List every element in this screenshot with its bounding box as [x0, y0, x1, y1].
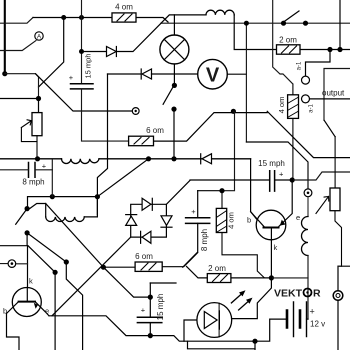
svg-text:+: +	[279, 170, 284, 179]
inductor L2	[46, 217, 85, 222]
lamp HL1	[160, 15, 189, 86]
svg-text:a-1: a-1	[297, 61, 303, 70]
node: dot (81.5,51.5)	[79, 49, 84, 54]
svg-text:+: +	[141, 306, 146, 315]
capacitor C1 "15 mph" polarized	[71, 84, 94, 89]
battery GB1 "12 v"	[287, 302, 307, 337]
wire: top-left y=23 to chamfer up to y=17.5	[0, 18, 33, 24]
terminal node B (circle with dot)	[304, 189, 312, 197]
svg-text:+: +	[42, 162, 47, 171]
svg-text:R: R	[313, 288, 321, 300]
voltmeter PV1	[198, 59, 228, 89]
wire: dot6 down to bottom, right to riser up to battery	[255, 319, 287, 350]
node: junction dot at (4.8,73.7)	[2, 71, 7, 76]
diagonal B bridge corner through dot3 to T2 e-wire	[52, 237, 131, 316]
svg-text:4 om: 4 om	[227, 212, 236, 229]
diagonal L2 from switch to dot2 then zigzag down	[27, 233, 83, 350]
diode bridge VD1-VD4	[126, 180, 190, 243]
terminal P (circle with dot)	[132, 108, 139, 115]
node: dot5 (150.3,335.6)	[148, 333, 153, 338]
main rail y=158.8	[0, 158, 251, 160]
node: dot3 (103.4,267.2)	[101, 265, 106, 270]
svg-text:2 om: 2 om	[208, 264, 226, 273]
svg-text:6 om: 6 om	[135, 252, 153, 261]
wire: y=74 from diode to V meter	[152, 73, 199, 75]
svg-text:V: V	[206, 65, 220, 87]
inductor L4 vertical	[307, 197, 309, 217]
resistor R1 "4 om"	[112, 13, 168, 22]
wire: diode D1 to diagonal up to y=23 junction	[116, 23, 161, 51]
svg-text:A: A	[37, 33, 42, 40]
svg-text:+: +	[191, 207, 196, 216]
node: dot (174,158.8)	[171, 156, 176, 161]
svg-text:2 om: 2 om	[279, 36, 297, 45]
wire: long y=23.2 to right edge	[161, 22, 350, 24]
wire: vertical x=63.7 down then diagonal to gray vertical	[39, 18, 64, 88]
wire: dot5 right chamfer down to y=341.2	[150, 336, 255, 342]
wire: y=348.8 lower rail	[188, 341, 256, 349]
svg-text:15 mph: 15 mph	[84, 53, 93, 78]
svg-text:a-1: a-1	[309, 104, 315, 113]
resistor R7 "6 om"	[103, 253, 197, 272]
wire: vertical x=340 top	[339, 0, 341, 50]
node: dot (222,190.7)	[219, 188, 224, 193]
wire: 6om-1 feed: y=141.1 from cap to box	[154, 113, 268, 142]
capacitor C3 "8 mph" polarized	[197, 191, 199, 218]
variable resistor VR2 (rheostat)	[316, 137, 342, 267]
node: dot (148.5,158.8)	[146, 156, 151, 161]
diagonal L1 to dot1 then vertical	[28, 246, 55, 350]
diagonal from rail dot down to dot97	[97, 159, 148, 197]
node: dot (271.4,277.9)	[269, 275, 274, 280]
capacitor C5 15mph bottom	[137, 317, 161, 322]
diode D2	[108, 73, 142, 75]
wire from dot292 right chamfer to y=172	[292, 172, 350, 180]
node: dot (233.4,111.3)	[231, 109, 236, 114]
wire: LED right diag up to dot	[232, 278, 272, 319]
svg-text:4 om: 4 om	[277, 97, 286, 114]
node: dot lamp bottom (174.4,85.4)	[172, 83, 177, 88]
wire: T2 e horizontal to diag to cap wire	[49, 316, 150, 336]
diode D3	[201, 154, 212, 164]
wire: y=196.6 from switch to dot97	[28, 197, 98, 209]
resistor R6 "4 om" vertical	[216, 191, 264, 278]
wire: y=277.9 corner at 308.3, battery riser	[271, 278, 308, 319]
node: dot (38.5,98.5)	[36, 96, 41, 101]
node: dot (292.2,180)	[290, 177, 295, 182]
wire: L to terminal out1	[306, 50, 331, 77]
wire: x=234.5 down, corner left to dot 222	[222, 111, 235, 190]
svg-text:e: e	[45, 307, 49, 316]
svg-text:+: +	[310, 307, 315, 317]
transistor Q1 (labels b,e,k)	[251, 180, 293, 278]
svg-text:VEKT: VEKT	[274, 288, 303, 300]
wire y=180 from bridge diag to dot292	[190, 179, 270, 181]
wire: y=98.5 horizontal left	[0, 98, 39, 100]
resistor R8 "2 om"	[187, 266, 270, 282]
node: dot (81.5,17.5)	[79, 15, 84, 20]
wire: coil right end down to 2om wire	[234, 15, 276, 50]
wire: x=97.4 down, coil L2 right end	[84, 197, 97, 217]
wire: y=50.5 left with diagonal up to ammeter	[0, 41, 36, 51]
resistor R2 "2 om"	[277, 45, 350, 54]
wire: LED left to corner down to y=341	[184, 320, 197, 341]
svg-text:15 mph: 15 mph	[156, 294, 165, 321]
inductor L3	[206, 10, 234, 15]
wire: vertical x=174 down to rail	[173, 109, 175, 159]
svg-text:output: output	[322, 89, 345, 98]
long diagonal A from coil corner to dot3	[46, 204, 104, 268]
diode D1	[82, 51, 107, 53]
wire: rail corner down to transistor T1 b	[251, 159, 264, 228]
node: dot (246.4,23.2)	[244, 21, 249, 26]
wire: y=142 to diagonal down to coil terminal	[246, 142, 308, 189]
LED VD5 with arrows	[197, 290, 253, 337]
svg-text:e: e	[296, 213, 300, 222]
node: switch lower contact dot (174,109.1)	[171, 107, 176, 112]
node: dot (63.7,17.5)	[61, 15, 66, 20]
svg-text:6 om: 6 om	[146, 126, 164, 135]
wire: chamfer up to lamp top wire y=14.9	[161, 15, 206, 23]
svg-text:+: +	[69, 73, 74, 82]
wire: x=107.5 corner down to chamfer to x=97.4	[97, 74, 107, 215]
svg-text:15 mph: 15 mph	[258, 159, 285, 168]
transistor Q2 (labels b,e,k)	[7, 288, 50, 350]
terminal C (double circle)	[333, 291, 343, 301]
wire: y=73.7 from dot to chamfer	[5, 74, 39, 113]
wire: diagonal B from y=73.7 bend to terminal p wire	[36, 74, 133, 111]
wire: V right to corner	[227, 73, 246, 75]
black diag from box corner to coil feed	[324, 120, 335, 137]
wire: coil left end up to switch top	[27, 204, 46, 217]
diagonal dot3 down-right to y=297	[103, 267, 150, 297]
switch S3 contacts and lever	[281, 21, 286, 26]
variable resistor VR1 (rheostat)	[21, 99, 42, 159]
svg-text:8 mph: 8 mph	[22, 178, 44, 187]
resistor R3 "6 om"	[129, 136, 154, 146]
svg-text:b: b	[3, 307, 7, 316]
svg-text:8 mph: 8 mph	[200, 229, 209, 251]
resistor R5 "4 om" vertical	[288, 84, 299, 180]
wire: top feed x=272.7 chamfer to resistor top	[273, 0, 293, 84]
wire: y=17.5 rail to 4om resistor	[33, 17, 112, 19]
wire: switch bottom down, corner left, and T2 collector	[0, 233, 28, 288]
svg-text:12 v: 12 v	[310, 320, 325, 329]
capacitor C4 "15 mph"	[270, 171, 275, 191]
capacitor C2 "8 mph"	[29, 163, 36, 178]
node: dot (52.3,196.6)	[50, 194, 55, 199]
wire: vertical x=246.4 from y=23 down to y=142	[245, 23, 247, 142]
node: dot6 (255,341.2)	[252, 339, 257, 344]
terminal a-1 output (open circle)	[302, 95, 310, 103]
wire: y=190.7 cap to dot222	[198, 190, 222, 192]
wire: vertical x=52.3 from rail to y=196.6	[51, 159, 53, 197]
node: dot (37.5,158.8)	[35, 156, 40, 161]
output box outline	[324, 69, 350, 121]
switch S2 contacts and lever	[25, 206, 30, 211]
svg-text:b: b	[247, 216, 251, 225]
inductor L1	[62, 159, 100, 164]
svg-text:k: k	[29, 277, 33, 286]
switch S1 lever	[163, 87, 173, 104]
diagonal #1 from y=111 end to right edge y=157.6	[267, 111, 350, 157]
terminal circle left edge (11.9,263.6)	[0, 263, 28, 265]
node: dot (97.4,196.7)	[95, 194, 100, 199]
wire: thick left vertical	[4, 0, 6, 74]
wire: vertical x=81.5 from top to cap 15mph-1	[81, 0, 83, 84]
svg-text:k: k	[274, 243, 278, 252]
terminal a-1 upper (open circle)	[302, 76, 310, 84]
node: dots on 2om wire	[327, 47, 332, 52]
svg-text:4 om: 4 om	[115, 3, 133, 12]
wire: dot4 and cap C5	[149, 283, 151, 297]
terminal A (circle with letter A)	[35, 32, 43, 40]
